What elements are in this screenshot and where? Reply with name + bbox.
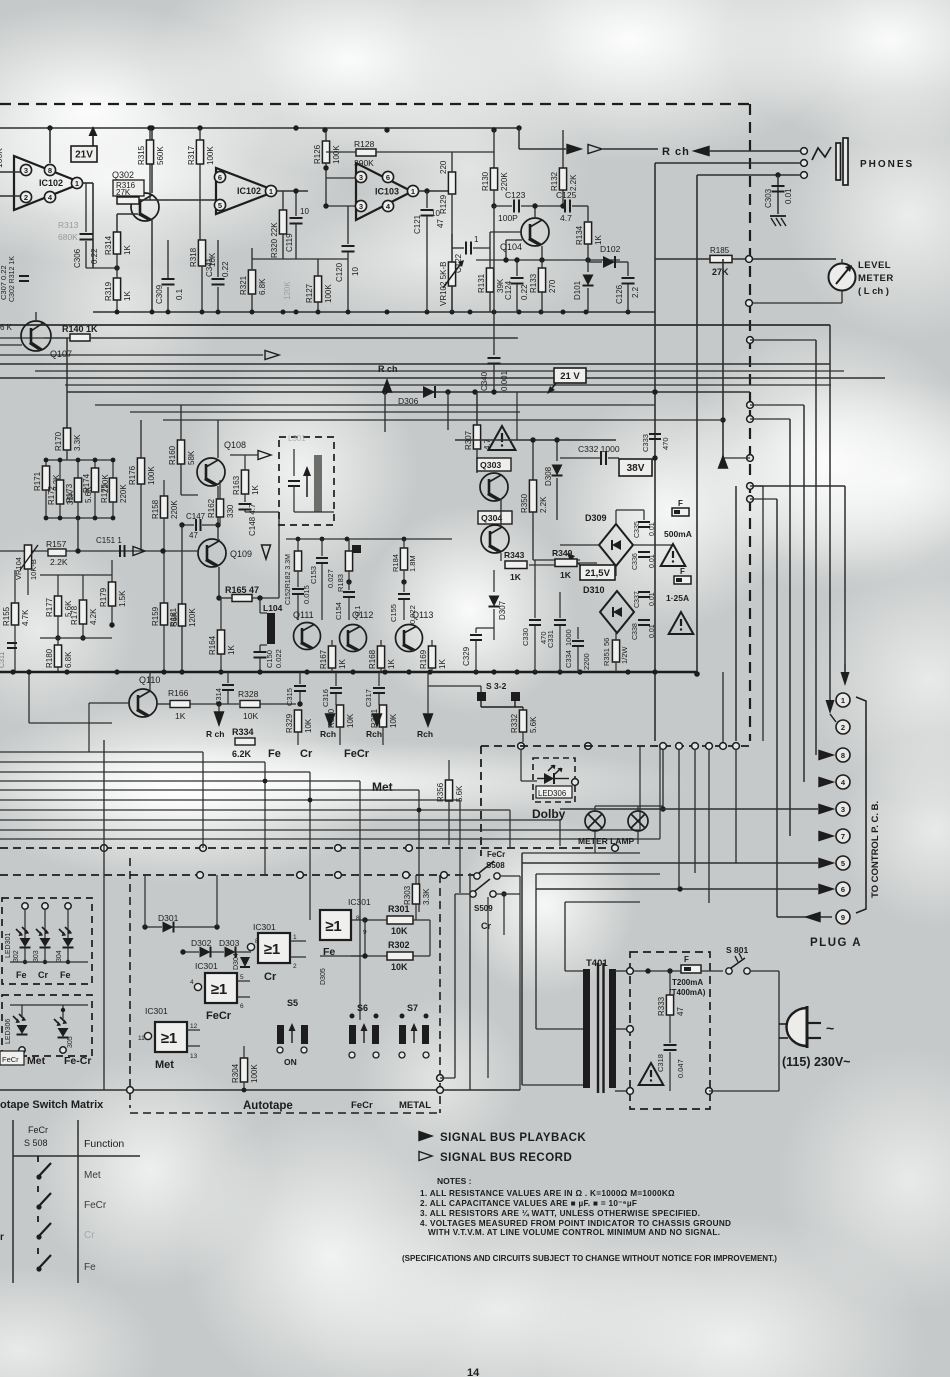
resistor R175 [100,478,128,503]
svg-text:2.2K: 2.2K [569,174,578,191]
signal bus playback arrow [567,145,581,154]
wire head bottom [294,511,334,513]
svg-text:2.2: 2.2 [631,286,640,298]
svg-text:C147: C147 [186,512,206,521]
junction [111,516,116,521]
svg-text:(SPECIFICATIONS AND CIRCUITS: (SPECIFICATIONS AND CIRCUITS SUBJECT TO … [402,1254,777,1263]
dashed bottom border [130,1112,440,1114]
wire bus 6 [0,377,885,379]
label Dolby [532,807,566,821]
svg-text:C341: C341 [205,257,214,277]
logic gate IC301 FeCr [195,961,237,1003]
wire [116,254,118,278]
svg-text:S5: S5 [287,998,298,1008]
label Autotape [243,1100,293,1112]
wire S801 right [750,970,779,972]
wire control bus [0,819,560,821]
wire [220,598,222,630]
wire [448,760,450,780]
svg-text:C154: C154 [334,602,343,620]
junction [320,537,325,542]
junction [323,165,328,170]
wire [380,640,382,646]
wire [299,672,301,684]
junction [652,389,657,394]
switch S7 [399,1014,429,1059]
svg-text:S 508: S 508 [24,1138,48,1148]
wire phones sleeve [697,174,801,176]
wire Q107 collector [35,312,37,322]
wire [57,667,59,671]
node [612,845,619,852]
wire to R185 [655,258,710,260]
resistor R162 [207,498,235,518]
node [627,1026,634,1033]
capacitor C334 [564,641,591,670]
label D302 [191,938,212,948]
capacitor C307 and R312 fragment [0,256,29,302]
svg-text:C331: C331 [546,630,555,648]
plug A pin 7 [836,829,850,843]
wire to pin7 [789,419,791,836]
junction [382,669,387,674]
wire [403,600,405,620]
gate Met pin11 [138,1032,152,1042]
wire to pin9 [776,499,778,917]
wire [382,727,384,745]
wire R321 down [251,294,253,312]
svg-text:303: 303 [33,950,40,962]
resistor R169 [419,646,447,669]
label 1 [293,934,297,941]
svg-text:R167: R167 [319,649,328,669]
svg-text:0.22: 0.22 [90,248,99,264]
capacitor C330 [521,620,548,646]
wire to pin8 [815,340,817,755]
label Cr [481,921,491,931]
svg-text:R ch: R ch [378,364,398,374]
wire stub pin9 [750,498,777,500]
resistor R179 [99,582,127,607]
svg-text:≥1: ≥1 [211,981,228,998]
wire R317 to R318 [199,178,201,240]
junction [584,310,589,315]
node [101,845,108,852]
wire Q302 base [117,213,138,215]
wire [431,668,433,672]
wire [220,654,222,671]
svg-text:0.01: 0.01 [649,522,656,536]
capacitor C147 [186,512,206,540]
svg-text:S 3-2: S 3-2 [486,681,507,691]
junction [516,125,521,130]
junction [677,886,682,891]
svg-text:9: 9 [841,913,845,922]
resistor R331 [370,705,398,728]
wire bus 3 [0,354,263,356]
svg-text:R160: R160 [168,445,177,465]
transistor Q303 [480,473,508,501]
junction [667,968,672,973]
svg-text:C307 0.22: C307 0.22 [0,265,8,300]
wire [587,288,589,312]
gate Cr pin [247,938,259,951]
wire meter top [841,259,843,263]
svg-text:C119: C119 [285,233,294,252]
junction [514,257,519,262]
wire C340 column lower [493,364,495,392]
wire led305 rail [10,1004,88,1006]
wire [199,128,201,140]
junction [468,310,473,315]
svg-text:100K: 100K [206,146,215,165]
capacitor C340 [480,358,509,391]
wire [244,494,246,502]
wire Q110 base [89,702,129,704]
wire R320 up [282,191,284,210]
junction [445,389,450,394]
svg-text:2200: 2200 [582,653,591,670]
potentiometer VR102 [439,260,464,306]
resistor R303 [403,884,431,905]
svg-text:TO CONTROL P. C. B.: TO CONTROL P. C. B. [870,801,881,898]
svg-text:R132: R132 [550,171,559,191]
capacitor C155 [389,594,417,624]
label NOTES : [437,1176,472,1186]
resistor R314 [104,232,132,255]
wire C147 right [202,524,218,526]
wire R350 down [532,512,534,560]
wire plug return [709,1090,779,1092]
svg-text:100P: 100P [498,213,518,223]
svg-text:R133: R133 [529,273,538,293]
svg-text:(115) 230V~: (115) 230V~ [782,1055,850,1069]
wire C147 left [182,524,194,526]
svg-text:FeCr: FeCr [28,1125,48,1135]
wire head cap bottom [293,486,295,512]
arrow into pin 5 [819,859,833,868]
svg-text:R126: R126 [313,144,322,164]
wire bus 10 [130,411,520,413]
resistor R174 [82,468,110,493]
capacitor C123 [498,190,526,223]
wire Q107 to R140 [44,337,70,339]
capacitor C331 [546,620,573,648]
resistor R313 (faint) [58,220,79,242]
svg-text:C329: C329 [462,646,471,666]
capacitor C316 [321,688,342,707]
junction [294,310,299,315]
wire [163,625,165,671]
diode D307 [489,596,500,607]
wire [627,284,629,312]
svg-text:0.015: 0.015 [302,585,311,604]
wire stub D [750,485,763,487]
wire primary mid [536,1028,584,1030]
junction [109,622,114,627]
svg-text:R165 47: R165 47 [225,585,259,595]
svg-text:2: 2 [293,963,297,970]
wire control bus drop [509,810,511,848]
svg-text:R185: R185 [710,246,730,255]
wire node down [278,512,280,598]
label FeCr [487,850,505,859]
label R184 1.8M [391,554,417,572]
junction [382,389,387,394]
wire R130 up [493,130,495,168]
wire [57,638,59,645]
wire [77,460,79,478]
switch glyph FeCr [36,1186,51,1210]
Rch arrow 4 [424,714,433,726]
resistor R155 [2,603,30,626]
wire row to Q109 base [77,518,79,553]
wire [541,260,543,268]
dashed matrix vertical right [439,875,441,1113]
svg-text:3.3K: 3.3K [422,888,431,905]
wire D301 left [145,926,162,928]
wire [244,510,246,512]
junction [114,265,119,270]
op-amp IC102 (first) [14,156,83,210]
junction [200,310,205,315]
wire D309 bottom [615,566,617,576]
bridge rectifier D310 [600,591,634,633]
capacitor C318 [656,1045,685,1078]
svg-text:PLUG A: PLUG A [810,937,862,949]
svg-text:Cr: Cr [264,971,277,983]
wire VR102 wiper to C122 [452,247,464,249]
svg-text:R169: R169 [419,649,428,669]
wire IC103 out [418,190,452,192]
svg-text:R313: R313 [58,220,79,230]
junction [61,1008,65,1012]
svg-text:2.2K: 2.2K [50,557,68,567]
R ch arrow [694,147,709,156]
svg-text:10K: 10K [243,711,258,721]
junction [532,669,537,674]
svg-text:3. ALL RESISTORS ARE ¼ WATT: 3. ALL RESISTORS ARE ¼ WATT, UNLESS OTHE… [420,1209,700,1218]
wire [14,570,16,603]
svg-text:R320 22K: R320 22K [270,222,279,258]
node [335,845,342,852]
wire [431,640,433,646]
svg-text:D308: D308 [544,466,553,486]
resistor R165 [225,585,259,602]
wire [380,668,382,672]
node [746,300,753,307]
wire [259,645,261,651]
label R351 56 1/2W [602,638,629,666]
svg-text:R321: R321 [239,275,248,295]
LED303 [36,927,51,948]
junction [80,635,85,640]
label TO CONTROL P.C.B. [870,801,881,898]
svg-text:100K: 100K [332,145,341,164]
wire R321 up [251,248,253,270]
switch glyph Met [36,1156,51,1180]
wire 21V supply rail [0,127,519,129]
svg-text:220K: 220K [500,172,509,191]
svg-text:Fe: Fe [60,970,71,980]
resistor R317 [187,140,215,165]
wire Q104 base [506,239,522,241]
svg-text:0.01: 0.01 [649,624,656,638]
svg-text:IC301: IC301 [253,922,276,932]
svg-text:220: 220 [439,160,448,174]
svg-text:C126: C126 [615,284,624,304]
svg-text:≥1: ≥1 [264,941,281,958]
wire [516,284,518,312]
dashed bus FeCr lower [0,874,474,876]
capacitor C151 [96,536,125,557]
signal bus record arrow [588,145,602,154]
wire to pin3 [560,808,818,810]
wire vertical K [735,749,737,863]
wire [94,492,96,518]
node [335,872,342,879]
svg-text:R303: R303 [403,885,412,905]
label S508 [486,861,505,870]
svg-text:56K: 56K [170,611,179,626]
svg-text:58K: 58K [187,450,196,465]
svg-text:Q303: Q303 [480,460,501,470]
label Cr [38,970,48,980]
svg-text:FeCr: FeCr [351,1100,373,1111]
label R ch [662,146,690,158]
op-amp IC103 [355,163,418,220]
wire [533,559,580,561]
junction [250,310,255,315]
label Met [372,780,393,794]
svg-text:1K: 1K [123,291,132,301]
svg-text:6.8K: 6.8K [64,651,73,668]
wire [588,261,602,263]
svg-text:C311: C311 [0,652,6,668]
junction [492,310,497,315]
transistor Q108 [197,440,246,486]
junction [473,669,478,674]
wire [112,502,114,518]
svg-text:120K: 120K [188,608,197,627]
wire T401 top outer [522,852,640,854]
wire lamp2 up [637,806,639,811]
svg-text:D304: D304 [233,953,240,970]
svg-text:~: ~ [826,1020,834,1036]
wire control bus [0,761,265,763]
node [747,416,754,423]
svg-text:1: 1 [411,187,415,196]
svg-text:1K: 1K [175,711,186,721]
junction [626,310,631,315]
wire output down [92,183,94,268]
switch S508 [474,861,500,879]
wire [476,627,494,629]
resistor R180 [45,645,73,668]
svg-text:1: 1 [474,235,479,244]
wire to fuse [634,970,681,972]
wire drop at 448 [447,392,449,430]
node [197,872,204,879]
resistor R132 [550,168,578,191]
node [441,872,448,879]
svg-text:C150: C150 [265,650,274,668]
junction [557,669,562,674]
svg-text:IC301: IC301 [348,897,371,907]
wire [59,460,61,480]
svg-text:R158: R158 [151,499,160,519]
svg-text:0.027: 0.027 [326,569,335,588]
svg-text:1K: 1K [251,485,260,495]
resistor R334 [232,727,255,759]
svg-text:R130: R130 [481,171,490,191]
svg-text:C330: C330 [521,628,530,646]
plug A pin 1 [836,693,850,707]
svg-text:10: 10 [300,207,309,216]
FeCr box label [0,1051,24,1065]
svg-text:3: 3 [359,173,363,182]
fuse F 500mA [672,499,689,516]
wire Q104 collector [534,206,536,218]
svg-text:Met: Met [84,1170,101,1181]
node [747,455,754,462]
wire [427,672,429,714]
wire [403,539,405,548]
wire [297,539,299,551]
svg-text:C120: C120 [335,262,344,282]
wire IC102 output [82,182,93,184]
table line h [13,1155,140,1157]
junction [346,579,351,584]
dashed border vertical right [749,104,751,741]
node [676,743,683,750]
wire [82,575,84,600]
wire R307 feed [476,392,478,425]
warning triangle 1 [489,426,516,450]
switch S5 [277,1023,308,1053]
svg-text:0.01: 0.01 [649,554,656,568]
svg-text:12: 12 [190,1023,198,1030]
label METAL [399,1100,431,1111]
svg-text:SIGNAL BUS RECORD: SIGNAL BUS RECORD [440,1152,572,1164]
junction [424,188,429,193]
wire D301 right [174,926,217,928]
wire C306 down [85,241,87,268]
transistor Q304 [481,525,509,553]
wire R316 to IC102b [139,199,216,201]
faint label 120K [283,281,292,300]
junction [720,417,725,422]
autotape matrix box 2 [2,995,92,1056]
capacitor C303 [764,186,793,208]
diode D308 [552,465,563,476]
wire L104 top [259,598,261,613]
junction [93,458,98,463]
resistor R319 [104,278,132,301]
wire head cap top [293,449,295,476]
junction [58,516,63,521]
21V box mid [554,368,586,383]
svg-text:C152R182 3.3M: C152R182 3.3M [285,554,292,605]
svg-text:1000: 1000 [564,629,573,646]
capacitor C317 [364,688,385,707]
junction [450,310,455,315]
svg-text:Autotape: Autotape [243,1100,293,1112]
svg-text:( L ch ): ( L ch ) [858,286,889,297]
wire [587,206,589,222]
wire to circle [440,1077,455,1079]
wire Q107 base [0,344,22,346]
